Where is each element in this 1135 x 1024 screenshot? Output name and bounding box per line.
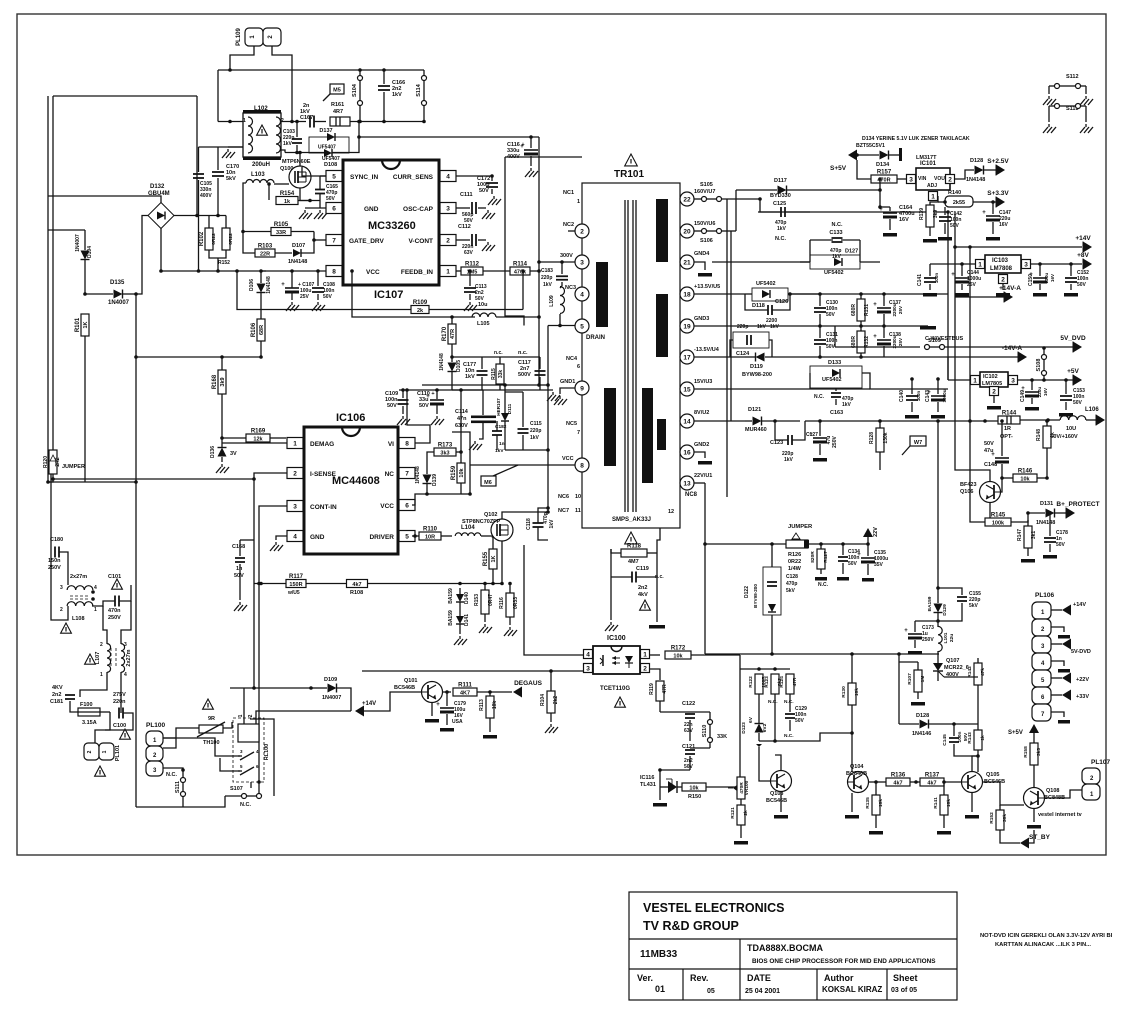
svg-text:R142: R142: [967, 666, 973, 678]
svg-text:C181: C181: [50, 699, 63, 705]
svg-text:0R33: 0R33: [513, 597, 519, 609]
diode D119 BYW98-200: [756, 353, 765, 362]
svg-text:HER107: HER107: [496, 398, 501, 416]
svg-text:8: 8: [332, 269, 336, 276]
wire relay contact 2: [220, 758, 240, 771]
wire IC100 pin3 rail: [362, 670, 583, 672]
wire VCC bus to R109: [237, 271, 411, 310]
pin 3 300V: [575, 255, 589, 269]
svg-text:2k2: 2k2: [553, 696, 559, 705]
svg-text:UF5402: UF5402: [822, 377, 842, 383]
capacitor C137 2200u 25V: [877, 307, 891, 309]
flag S+3.3V: [996, 197, 1005, 208]
wire bridge top: [48, 196, 161, 203]
svg-text:R169: R169: [251, 429, 266, 435]
svg-text:470R: 470R: [739, 782, 745, 794]
svg-text:R148: R148: [1036, 429, 1042, 441]
ground pin16: [694, 452, 705, 458]
wire L102 pin1 bus: [218, 121, 243, 123]
wire R118 C119 rails: [610, 549, 612, 601]
svg-text:C150: C150: [1028, 274, 1034, 286]
capacitor C126 2200p 1kV: [767, 305, 769, 315]
flag 5V_DVD: [1073, 342, 1082, 353]
resistor R121 2k vertical: [737, 805, 745, 825]
resistor R119 47R vertical: [656, 681, 664, 701]
svg-text:50V: 50V: [1056, 542, 1066, 548]
capacitor C116 330u 400V: [524, 149, 538, 151]
wire D117 right to C164 node: [879, 190, 881, 207]
svg-text:C115: C115: [530, 421, 542, 427]
svg-text:R136: R136: [891, 773, 906, 779]
resistor R120 2R2 jumper: [49, 450, 57, 474]
svg-text:2k55: 2k55: [953, 200, 965, 206]
svg-text:L109: L109: [549, 295, 555, 307]
svg-text:0R22: 0R22: [211, 233, 217, 245]
svg-text:1kV: 1kV: [392, 92, 402, 98]
wire PL100 pin3 net: [163, 768, 183, 770]
svg-text:22R: 22R: [260, 251, 270, 257]
svg-text:+14V: +14V: [1075, 235, 1091, 242]
svg-text:50V: 50V: [684, 764, 694, 770]
svg-text:S107: S107: [230, 786, 243, 792]
transformer TR101 outline: [582, 183, 680, 528]
box M6 label: [481, 476, 496, 486]
capacitor C115 220p 1kV: [518, 428, 529, 430]
svg-text:3: 3: [60, 585, 63, 591]
svg-text:D140: D140: [464, 592, 470, 604]
svg-text:S110: S110: [702, 725, 708, 738]
resistor R123 8k2 vertical: [771, 674, 779, 694]
wire D122 box connections: [771, 544, 773, 567]
svg-text:9R: 9R: [208, 716, 215, 722]
svg-text:PL109: PL109: [236, 28, 242, 46]
svg-text:R152: R152: [218, 260, 230, 266]
wire long rail 160V x727: [726, 199, 728, 497]
svg-text:R157: R157: [877, 170, 892, 176]
diode D122 BYW98-200 box: [763, 567, 781, 615]
resistor R152 0R22 vertical: [222, 228, 230, 250]
label W7 box: [910, 436, 926, 446]
diode D106 1N4148 vertical: [257, 284, 266, 293]
svg-text:4: 4: [124, 672, 127, 678]
svg-text:01: 01: [655, 984, 665, 994]
svg-text:R152: R152: [989, 812, 995, 824]
capacitor C109 100n 50V: [398, 399, 409, 401]
svg-text:NC3: NC3: [565, 285, 576, 291]
svg-text:47u: 47u: [984, 448, 993, 454]
resistor R168 3k9 vertical: [218, 370, 226, 394]
wire bridge left: [136, 216, 148, 295]
resistor R158 3k3 vertical: [1030, 743, 1038, 765]
capacitor C128 470p 5kV: [767, 581, 777, 583]
svg-text:DRIVER: DRIVER: [369, 534, 394, 541]
svg-text:10U: 10U: [1066, 426, 1076, 432]
pin 2 NC2: [575, 224, 589, 238]
svg-text:05: 05: [707, 988, 715, 995]
diode D118 UF5402: [752, 288, 788, 301]
svg-text:2: 2: [643, 666, 647, 673]
capacitor C170 10n 5kV: [212, 171, 224, 173]
capacitor C130 100n 50V: [814, 307, 826, 309]
svg-text:R172: R172: [671, 646, 686, 652]
transistor Q108 BC848B: [1024, 788, 1045, 809]
svg-text:R154: R154: [280, 191, 295, 197]
svg-text:1: 1: [243, 118, 246, 124]
resistor R109 2k: [411, 306, 429, 314]
svg-text:JUMPER: JUMPER: [62, 464, 85, 470]
flag +14V PL106: [1051, 609, 1062, 611]
wire pin1 from R169: [222, 442, 287, 444]
ground PL106 pin2: [1051, 627, 1064, 632]
svg-text:4k7: 4k7: [893, 780, 902, 786]
capacitor C152 100n 50V: [1065, 277, 1077, 279]
warning triangle TR101 top: [625, 154, 638, 166]
flag +14V-A: [1004, 292, 1013, 303]
svg-text:250V: 250V: [48, 565, 61, 571]
svg-text:4KV: 4KV: [52, 685, 63, 691]
svg-text:1: 1: [100, 672, 103, 678]
warning triangle L108: [61, 623, 72, 633]
diode D121 MUR460: [753, 417, 762, 426]
svg-text:2: 2: [87, 750, 93, 753]
svg-text:2R2: 2R2: [55, 457, 61, 466]
svg-text:Author: Author: [824, 973, 854, 983]
svg-text:18: 18: [683, 292, 691, 299]
svg-text:1N4148: 1N4148: [288, 259, 307, 265]
svg-text:C100: C100: [113, 723, 126, 729]
svg-text:R122: R122: [748, 676, 754, 688]
svg-text:BIOS ONE CHIP PROCESSOR FOR MI: BIOS ONE CHIP PROCESSOR FOR MID END APPL…: [752, 958, 936, 965]
pin 18 +13.5V: [680, 287, 694, 301]
svg-text:63V: 63V: [684, 728, 694, 734]
flag S+5V: [848, 150, 857, 161]
svg-text:D104: D104: [87, 246, 93, 258]
svg-text:D137: D137: [319, 128, 332, 134]
svg-text:S108: S108: [1036, 359, 1042, 372]
svg-text:10: 10: [575, 494, 581, 500]
svg-text:6: 6: [577, 364, 580, 370]
resistor R101 1K vertical: [81, 314, 89, 336]
svg-text:50V: 50V: [795, 718, 805, 724]
svg-text:1N4148: 1N4148: [415, 466, 421, 484]
wire rail x970 down: [969, 247, 971, 421]
pin 6 VCC: [399, 500, 415, 511]
svg-text:R113: R113: [479, 699, 485, 711]
svg-text:1kV: 1kV: [530, 435, 540, 441]
svg-text:N.C.: N.C.: [832, 222, 843, 228]
svg-text:3k9: 3k9: [220, 377, 226, 386]
capacitor C181 2n2 4kV: [65, 694, 75, 696]
svg-text:5V-DVD: 5V-DVD: [1071, 649, 1091, 655]
svg-text:50V: 50V: [323, 294, 333, 300]
svg-text:R104: R104: [540, 694, 546, 706]
svg-text:MCR22_6: MCR22_6: [944, 665, 969, 671]
svg-text:6V: 6V: [748, 716, 754, 723]
capacitor C131 100n 50V: [814, 339, 826, 341]
capacitor C107 100u 25V: [285, 287, 299, 289]
pin 7 NC: [399, 468, 415, 479]
svg-text:3: 3: [446, 206, 450, 213]
svg-text:1kV: 1kV: [784, 457, 794, 463]
diode D108 UF5407: [324, 149, 332, 157]
op-amp U IC107 MC33260: [343, 160, 439, 285]
svg-text:DATE: DATE: [747, 973, 771, 983]
ground IC102: [993, 396, 995, 403]
resistor R159 10k vertical: [457, 463, 465, 483]
capacitor C182 1n 1kV: [492, 430, 502, 432]
wire R152 bottom riser: [217, 258, 219, 271]
resistor R146 10k: [1013, 474, 1037, 482]
svg-text:L102: L102: [254, 106, 268, 112]
capacitor C167 2n 1kV: [309, 116, 311, 128]
svg-text:400V: 400V: [200, 193, 212, 199]
svg-text:5: 5: [332, 174, 336, 181]
svg-text:DRAIN: DRAIN: [586, 335, 605, 341]
svg-text:W7: W7: [914, 440, 922, 446]
svg-text:NC1: NC1: [563, 190, 574, 196]
wire Q102 drain stub: [502, 512, 548, 519]
svg-text:R111: R111: [458, 683, 472, 689]
svg-text:L108: L108: [72, 616, 85, 622]
svg-text:UF5402: UF5402: [756, 281, 776, 287]
svg-text:R119: R119: [649, 683, 655, 695]
wire Q108 collector to PL107: [1044, 790, 1082, 798]
svg-text:22V: 22V: [873, 527, 879, 537]
wire snubber top bus: [399, 389, 483, 391]
inductor L109: [560, 287, 565, 314]
svg-text:25V: 25V: [300, 294, 310, 300]
svg-text:0R22: 0R22: [788, 559, 801, 565]
wire snubber bottom: [505, 449, 548, 451]
flag S+2.5V: [996, 165, 1005, 176]
svg-text:10u: 10u: [478, 302, 487, 308]
svg-text:C122: C122: [682, 701, 695, 707]
flag +14V net tag: [355, 706, 364, 717]
svg-text:63V: 63V: [464, 250, 474, 256]
svg-text:2: 2: [248, 714, 254, 717]
svg-text:D119: D119: [750, 364, 763, 370]
svg-text:B+_PROTECT: B+_PROTECT: [1056, 501, 1099, 508]
svg-text:3: 3: [586, 666, 590, 673]
resistor R117 150R: [286, 580, 306, 588]
resistor R128 130k vertical: [876, 428, 884, 452]
wire GND4 bus right: [712, 261, 810, 263]
svg-text:L101: L101: [943, 632, 949, 643]
svg-text:33R: 33R: [276, 230, 286, 236]
svg-text:D109: D109: [324, 677, 337, 683]
pin 4 GND: [287, 531, 303, 542]
svg-text:GND3: GND3: [694, 316, 709, 322]
svg-text:47R: 47R: [662, 684, 668, 694]
wire left rail bottom: [47, 450, 49, 482]
svg-text:D141: D141: [464, 614, 470, 626]
inductor L104: [455, 533, 481, 536]
wire rail x938 down from 22V: [937, 421, 939, 588]
capacitor C144 1000u 25V: [955, 277, 969, 279]
svg-text:IC107: IC107: [374, 289, 403, 301]
wire left rail to C180: [50, 474, 52, 552]
ground Q105: [971, 793, 973, 812]
svg-text:100n: 100n: [916, 391, 921, 402]
svg-text:+14V-A: +14V-A: [999, 285, 1021, 292]
svg-text:n.c.: n.c.: [494, 350, 503, 356]
label M5 box: [330, 84, 344, 94]
svg-text:50V: 50V: [234, 573, 244, 579]
wire C105 C170 top line: [199, 146, 244, 148]
svg-text:150V/U6: 150V/U6: [694, 221, 715, 227]
pin 14 8V: [680, 414, 694, 428]
svg-text:+8V: +8V: [1077, 252, 1089, 259]
svg-text:4K7: 4K7: [460, 690, 470, 696]
wire vestbus from pin area: [834, 326, 836, 347]
diode D105 1N4148 vertical: [448, 363, 457, 372]
svg-text:16V: 16V: [1043, 387, 1048, 396]
jumper S106: [702, 229, 707, 234]
transistor Q106 BF423: [980, 482, 1001, 503]
svg-text:UF5407: UF5407: [318, 145, 336, 151]
svg-text:1R: 1R: [1004, 426, 1011, 432]
ground C119 right black bar: [656, 601, 658, 622]
svg-text:R105: R105: [274, 222, 289, 228]
capacitor C105 330n 400V: [193, 173, 204, 175]
capacitor C173 1u 250V: [908, 633, 922, 635]
svg-text:16V: 16V: [899, 217, 909, 223]
diode D133 UF5402: [810, 366, 862, 388]
svg-text:C125: C125: [773, 201, 786, 207]
wire R159 top rail: [460, 390, 462, 463]
svg-text:1000u: 1000u: [942, 389, 947, 402]
svg-text:4: 4: [586, 652, 590, 659]
flag -14V-A: [1018, 352, 1027, 363]
svg-text:D135: D135: [110, 280, 125, 286]
svg-text:BA159: BA159: [448, 588, 454, 604]
svg-text:2: 2: [60, 607, 63, 613]
flag +22V up: [863, 528, 873, 537]
svg-text:N.C.: N.C.: [784, 699, 794, 705]
zener D123 6V2: [755, 724, 764, 733]
svg-text:NOT-DVD ICIN GEREKLI OLAN 3.3V: NOT-DVD ICIN GEREKLI OLAN 3.3V-12V AYRI …: [980, 933, 1113, 939]
svg-text:JUMPER: JUMPER: [788, 524, 813, 530]
svg-text:N.C.: N.C.: [814, 394, 825, 400]
capacitor C140 100n 50V: [906, 395, 918, 397]
transistor Q101 BC546B: [422, 682, 443, 703]
resistor R102 0R22 vertical: [205, 228, 213, 250]
svg-text:150R: 150R: [289, 582, 302, 588]
svg-text:Q102: Q102: [484, 512, 497, 518]
wire sense line to IC106 pin2: [53, 478, 254, 480]
svg-text:25V: 25V: [898, 337, 903, 346]
resistor R152b 30k vertical: [996, 810, 1004, 830]
svg-text:+13.5V/U5: +13.5V/U5: [694, 284, 720, 290]
wire IC102 input: [948, 379, 970, 381]
inductor L102 common mode choke: [243, 113, 281, 157]
svg-text:1kV: 1kV: [465, 374, 475, 380]
inductor L105 10u: [472, 313, 496, 317]
svg-text:C123: C123: [770, 440, 783, 446]
svg-text:IC103: IC103: [992, 258, 1009, 264]
wire C100 to PL101: [95, 712, 110, 743]
transistor Q105 BC546B: [962, 772, 983, 793]
svg-text:TDA888X.BOCMA: TDA888X.BOCMA: [747, 943, 824, 953]
wire pin3 300V: [539, 261, 575, 263]
winding primary bar pins3-5: [596, 262, 608, 327]
resistor R107b 1M vertical: [914, 670, 922, 692]
svg-text:50V: 50V: [479, 188, 489, 194]
svg-text:R126: R126: [788, 552, 801, 558]
svg-text:220n: 220n: [113, 699, 126, 705]
svg-text:1: 1: [293, 441, 297, 448]
svg-text:TL431: TL431: [640, 782, 656, 788]
svg-text:+: +: [982, 210, 986, 216]
svg-text:1: 1: [931, 194, 935, 201]
capacitor C147 220u 16V: [986, 215, 1000, 217]
wire C165 to IC107 pin5: [320, 175, 326, 177]
svg-text:L106: L106: [1085, 407, 1099, 413]
wire pin13 route down: [694, 482, 705, 484]
svg-text:47R: 47R: [450, 329, 456, 339]
svg-text:GND4: GND4: [694, 251, 710, 257]
pin 22 160V: [680, 192, 694, 206]
svg-text:Ver.: Ver.: [637, 973, 653, 983]
svg-text:+: +: [951, 272, 955, 278]
resistor R136 4k7: [886, 778, 910, 786]
resistor R142 47k vertical: [974, 663, 982, 685]
resistor R141 10k vertical: [940, 795, 948, 815]
pin 21 GND4: [680, 255, 694, 269]
svg-text:Q104: Q104: [850, 764, 864, 770]
wire D135 to vertical rail: [135, 294, 137, 482]
svg-text:2: 2: [293, 471, 297, 478]
wire C164 to R157 node: [879, 179, 881, 190]
zener D136 3V: [218, 448, 227, 457]
resistor R115 33k vertical: [496, 364, 504, 384]
svg-text:R117: R117: [289, 574, 304, 580]
capacitor C112 220n 63V pin2: [456, 239, 470, 241]
wire 15V rail: [745, 388, 810, 390]
svg-text:4: 4: [293, 534, 297, 541]
resistor R108 4k7: [347, 580, 368, 588]
svg-text:BA159: BA159: [927, 596, 933, 611]
connector PL109: [245, 28, 263, 46]
svg-text:L107: L107: [95, 652, 101, 665]
flag +22V PL106: [1051, 677, 1062, 679]
svg-text:MC44608: MC44608: [332, 475, 380, 487]
svg-text:150n: 150n: [48, 558, 61, 564]
svg-text:3: 3: [580, 260, 584, 267]
svg-text:3: 3: [124, 642, 127, 648]
svg-text:9: 9: [580, 386, 584, 393]
wire Q102 source down: [501, 541, 503, 584]
capacitor C118 470p 1kV: [533, 522, 544, 524]
capacitor C145 100n 50V: [949, 737, 959, 739]
svg-text:D107: D107: [292, 243, 305, 249]
svg-text:6: 6: [332, 206, 336, 213]
svg-text:-13.5V/U4: -13.5V/U4: [694, 347, 720, 353]
inductor L107 vertical pair: [107, 644, 111, 673]
svg-text:3k9: 3k9: [933, 210, 939, 219]
svg-text:1: 1: [238, 714, 244, 717]
flag +5V output: [1073, 375, 1082, 386]
svg-text:C126: C126: [775, 299, 788, 305]
svg-text:IC102: IC102: [983, 374, 998, 380]
svg-text:NC5: NC5: [566, 421, 577, 427]
svg-text:21: 21: [683, 260, 691, 267]
wire pin8 VI riser: [407, 390, 430, 443]
svg-text:50V: 50V: [826, 344, 836, 350]
wire +14V tag to Q101: [364, 692, 421, 711]
wire rail x948 down: [947, 294, 949, 380]
flag S+5V bottom: [1029, 724, 1039, 733]
